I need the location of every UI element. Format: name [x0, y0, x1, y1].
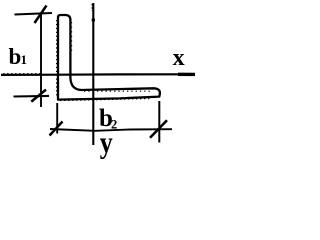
dimension b2: dimension line	[50, 129, 172, 131]
svg-text:y: y	[100, 127, 113, 160]
x-axis	[1, 74, 195, 75]
section edge texture	[57, 20, 152, 101]
dimension b1: top extension line	[15, 13, 53, 15]
dimension b1: bottom extension line	[14, 95, 50, 98]
svg-text:b: b	[9, 44, 22, 69]
y-axis	[92, 3, 95, 145]
dimension b1: top tick	[35, 6, 47, 24]
dimension b1: bottom tick	[31, 90, 46, 102]
dimension b1: dimension line	[40, 14, 42, 107]
dimension b2: left extension line	[56, 103, 58, 134]
svg-text:x: x	[173, 45, 185, 71]
angle section outline	[58, 15, 160, 100]
dimension b2: left tick	[50, 122, 63, 136]
dimension b2: right tick	[150, 120, 167, 138]
svg-text:1: 1	[21, 52, 28, 67]
dimension b2: right extension line	[158, 101, 160, 143]
